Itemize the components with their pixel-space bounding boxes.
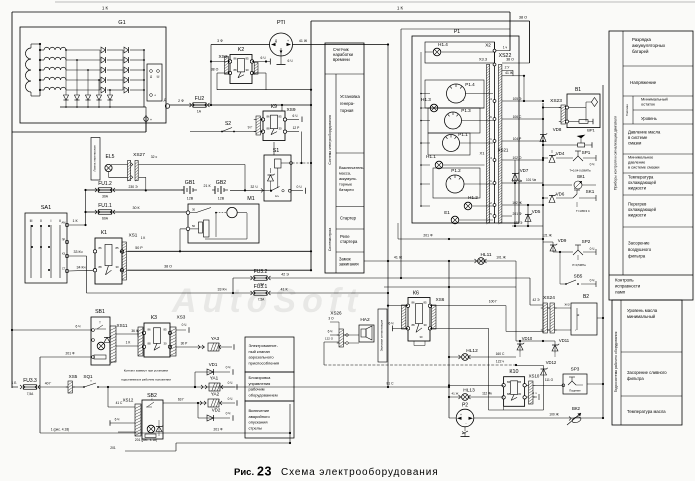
svg-text:аэрозольного: аэрозольного bbox=[249, 355, 275, 360]
svg-text:Н1.3: Н1.3 bbox=[421, 97, 431, 102]
svg-text:торная: торная bbox=[340, 108, 353, 113]
svg-text:FU3.3: FU3.3 bbox=[23, 378, 37, 384]
svg-text:121 Ж: 121 Ж bbox=[542, 234, 551, 238]
svg-text:+: + bbox=[460, 413, 462, 417]
svg-text:9 Г: 9 Г bbox=[248, 126, 253, 130]
svg-text:122 О: 122 О bbox=[325, 337, 334, 341]
svg-text:ВР1: ВР1 bbox=[587, 128, 595, 133]
svg-text:минимальный: минимальный bbox=[627, 314, 656, 319]
svg-text:воздушного: воздушного bbox=[628, 247, 652, 252]
svg-text:Н1.2: Н1.2 bbox=[468, 195, 478, 200]
svg-text:101 Чв: 101 Чв bbox=[526, 178, 536, 182]
svg-text:38 О: 38 О bbox=[211, 68, 219, 72]
svg-text:SB1: SB1 bbox=[95, 309, 105, 315]
svg-text:12 Р: 12 Р bbox=[293, 126, 301, 130]
svg-text:111 О: 111 О bbox=[545, 378, 554, 382]
svg-text:X1: X1 bbox=[480, 151, 486, 156]
svg-text:остаток: остаток bbox=[641, 102, 655, 107]
svg-text:ВК2: ВК2 bbox=[572, 406, 580, 411]
svg-text:0 Ч: 0 Ч bbox=[590, 163, 595, 167]
svg-text:6 Ч: 6 Ч bbox=[293, 114, 298, 118]
svg-text:Установка: Установка bbox=[340, 94, 360, 99]
svg-text:Ж/З: Ж/З bbox=[564, 303, 569, 307]
svg-text:VD5: VD5 bbox=[532, 209, 541, 214]
svg-text:XS12: XS12 bbox=[123, 398, 134, 403]
svg-text:40 Г: 40 Г bbox=[45, 382, 52, 386]
svg-text:Разрядка: Разрядка bbox=[632, 37, 652, 42]
svg-text:201 (рис. 4.18): 201 (рис. 4.18) bbox=[135, 438, 157, 442]
svg-text:YA1: YA1 bbox=[210, 376, 219, 381]
svg-text:0 ч: 0 ч bbox=[532, 391, 537, 395]
svg-text:32 Ч: 32 Ч bbox=[251, 185, 258, 189]
svg-text:88: 88 bbox=[411, 323, 415, 327]
svg-text:XS23: XS23 bbox=[550, 98, 562, 104]
svg-text:XS11: XS11 bbox=[117, 323, 128, 328]
svg-text:Звуковая сигнализация: Звуковая сигнализация bbox=[380, 319, 384, 351]
svg-text:охлаждающей: охлаждающей bbox=[628, 180, 657, 185]
svg-text:38 О: 38 О bbox=[519, 16, 527, 20]
svg-text:в системе: в системе bbox=[628, 135, 648, 140]
svg-text:7,5А: 7,5А bbox=[27, 392, 34, 396]
svg-text:201 Ф: 201 Ф bbox=[423, 234, 433, 238]
svg-text:XS21: XS21 bbox=[498, 148, 509, 153]
svg-text:VD8: VD8 bbox=[553, 127, 562, 132]
svg-text:50: 50 bbox=[192, 224, 196, 228]
svg-text:зажигания: зажигания bbox=[339, 262, 359, 267]
svg-text:приспособления: приспособления bbox=[249, 360, 280, 365]
svg-text:S: S bbox=[151, 398, 153, 402]
svg-text:201 Ф: 201 Ф bbox=[214, 428, 223, 432]
svg-text:0 Ч: 0 Ч bbox=[182, 323, 187, 327]
svg-text:батарей: батарей bbox=[632, 49, 649, 54]
svg-text:Р1.1: Р1.1 bbox=[458, 132, 468, 137]
svg-text:38 О: 38 О bbox=[506, 58, 514, 62]
svg-text:XS1: XS1 bbox=[129, 233, 138, 238]
svg-text:Т=0,04-0,08МПа: Т=0,04-0,08МПа bbox=[569, 169, 591, 173]
svg-text:жидкости: жидкости bbox=[628, 185, 647, 190]
svg-text:аварийного: аварийного bbox=[249, 414, 271, 419]
svg-text:АМ: АМ bbox=[62, 221, 66, 225]
svg-text:6 Ч: 6 Ч bbox=[115, 418, 120, 422]
svg-text:102 Ж: 102 Ж bbox=[512, 201, 521, 205]
svg-text:Стартер: Стартер bbox=[340, 216, 357, 221]
svg-text:Контроль: Контроль bbox=[615, 278, 634, 283]
svg-text:Д: Д bbox=[150, 75, 152, 79]
svg-text:Р1.3: Р1.3 bbox=[461, 108, 471, 113]
svg-text:85: 85 bbox=[423, 301, 427, 305]
svg-text:112 Фк: 112 Фк bbox=[482, 392, 492, 396]
svg-text:XS26: XS26 bbox=[330, 311, 342, 316]
svg-text:7,5А: 7,5А bbox=[258, 298, 265, 302]
svg-text:SA1: SA1 bbox=[41, 205, 52, 211]
svg-text:Система электрооборудования: Система электрооборудования bbox=[328, 115, 332, 164]
svg-text:HL13: HL13 bbox=[463, 388, 475, 394]
svg-text:HL12: HL12 bbox=[466, 348, 478, 354]
svg-text:VD10: VD10 bbox=[522, 336, 533, 341]
svg-text:ный клапан: ный клапан bbox=[249, 349, 270, 354]
svg-text:К10: К10 bbox=[509, 369, 518, 375]
svg-text:Включение: Включение bbox=[249, 408, 270, 413]
svg-text:Т=105±3 С: Т=105±3 С bbox=[576, 209, 590, 213]
svg-text:86: 86 bbox=[507, 380, 511, 384]
svg-text:86: 86 bbox=[266, 114, 270, 118]
svg-text:VD11: VD11 bbox=[559, 338, 570, 343]
svg-text:Система пуска: Система пуска bbox=[328, 228, 332, 251]
svg-text:K2: K2 bbox=[238, 47, 245, 53]
svg-text:23: 23 bbox=[257, 465, 272, 479]
svg-text:управления: управления bbox=[249, 381, 271, 386]
svg-text:41 К: 41 К bbox=[280, 288, 288, 292]
svg-text:К6: К6 bbox=[413, 291, 419, 297]
svg-text:XS6: XS6 bbox=[436, 297, 445, 302]
svg-text:100 Ж: 100 Ж bbox=[549, 413, 558, 417]
svg-text:X3.3: X3.3 bbox=[479, 57, 488, 62]
svg-text:ВК1: ВК1 bbox=[577, 174, 585, 179]
svg-text:аккумуля-: аккумуля- bbox=[339, 176, 357, 181]
svg-text:105 Э: 105 Э bbox=[513, 97, 522, 101]
svg-text:EL5: EL5 bbox=[106, 154, 115, 160]
svg-text:104 Р: 104 Р bbox=[513, 137, 522, 141]
svg-text:0 Ч: 0 Ч bbox=[226, 366, 231, 370]
svg-text:Электромагнит-: Электромагнит- bbox=[249, 343, 279, 348]
svg-text:102 О: 102 О bbox=[513, 156, 522, 160]
svg-text:В2: В2 bbox=[583, 294, 589, 300]
svg-text:GB1: GB1 bbox=[185, 180, 195, 186]
svg-text:12В: 12В bbox=[187, 197, 194, 201]
svg-text:30 К: 30 К bbox=[132, 206, 140, 210]
svg-text:101 Ж: 101 Ж bbox=[496, 256, 505, 260]
svg-text:FU3.2: FU3.2 bbox=[254, 269, 268, 275]
svg-text:фильтра: фильтра bbox=[627, 376, 644, 381]
svg-text:42 Э: 42 Э bbox=[281, 273, 289, 277]
svg-text:Приборы контроля и сигнализаци: Приборы контроля и сигнализации двигател… bbox=[614, 116, 618, 190]
svg-text:в системе смазки: в системе смазки bbox=[628, 165, 659, 170]
svg-text:106 С: 106 С bbox=[513, 115, 522, 119]
svg-text:+: + bbox=[287, 39, 289, 43]
svg-text:FU3.1: FU3.1 bbox=[254, 284, 268, 290]
svg-text:1 К: 1 К bbox=[141, 236, 146, 240]
svg-text:Н1.1: Н1.1 bbox=[426, 154, 436, 159]
svg-text:фильтра: фильтра bbox=[628, 254, 646, 259]
svg-text:1 Б: 1 Б bbox=[12, 381, 17, 385]
svg-text:6 Ч: 6 Ч bbox=[389, 322, 394, 326]
svg-text:30А: 30А bbox=[102, 195, 109, 199]
svg-text:Ш: Ш bbox=[157, 75, 160, 79]
svg-text:Температура масла: Температура масла bbox=[627, 409, 666, 414]
svg-text:стартера: стартера bbox=[340, 239, 358, 244]
svg-text:30: 30 bbox=[245, 68, 249, 72]
svg-text:0 Ч: 0 Ч bbox=[228, 381, 233, 385]
svg-text:30 Р: 30 Р bbox=[181, 342, 189, 346]
svg-text:VD6: VD6 bbox=[556, 192, 565, 197]
svg-text:ламп: ламп bbox=[615, 289, 626, 294]
svg-text:SP1: SP1 bbox=[582, 150, 591, 155]
svg-text:41 Ж: 41 Ж bbox=[505, 71, 514, 75]
svg-text:HL11: HL11 bbox=[480, 252, 491, 258]
svg-text:33 Кч: 33 Кч bbox=[74, 250, 83, 254]
svg-text:21 К: 21 К bbox=[203, 184, 211, 188]
svg-text:жидкости: жидкости bbox=[628, 213, 647, 218]
svg-text:VD7: VD7 bbox=[520, 168, 529, 173]
svg-text:34 Кч: 34 Кч bbox=[77, 266, 86, 270]
svg-text:YA2: YA2 bbox=[211, 392, 220, 397]
svg-text:201 Ф: 201 Ф bbox=[513, 212, 522, 216]
svg-text:86: 86 bbox=[411, 301, 415, 305]
svg-text:12В: 12В bbox=[218, 197, 225, 201]
svg-text:30: 30 bbox=[423, 323, 427, 327]
svg-text:201 Ф: 201 Ф bbox=[66, 352, 75, 356]
svg-text:6 Ч: 6 Ч bbox=[328, 330, 333, 334]
svg-text:1 ч: 1 ч bbox=[503, 46, 508, 50]
svg-text:85: 85 bbox=[115, 246, 119, 250]
svg-text:X2: X2 bbox=[485, 43, 491, 48]
svg-text:SK1: SK1 bbox=[586, 189, 595, 194]
svg-text:VD9: VD9 bbox=[558, 238, 567, 243]
svg-text:GB2: GB2 bbox=[216, 180, 226, 186]
svg-text:6 Ч: 6 Ч bbox=[287, 59, 292, 63]
svg-text:XS10: XS10 bbox=[529, 374, 540, 379]
svg-text:230 Э: 230 Э bbox=[128, 185, 138, 189]
svg-text:XS27: XS27 bbox=[133, 152, 145, 158]
svg-text:86: 86 bbox=[233, 56, 237, 60]
svg-text:122 Э: 122 Э bbox=[514, 221, 523, 225]
svg-text:В1: В1 bbox=[575, 87, 581, 93]
svg-text:Контакт замкнут при установке: Контакт замкнут при установке bbox=[124, 369, 169, 373]
svg-text:S2: S2 bbox=[225, 121, 231, 127]
svg-text:XS9: XS9 bbox=[286, 107, 295, 113]
svg-text:0: 0 bbox=[40, 219, 42, 223]
svg-text:122 ч: 122 ч bbox=[496, 360, 504, 364]
svg-text:КЗ: КЗ bbox=[62, 252, 65, 256]
svg-text:42 Э: 42 Э bbox=[533, 298, 541, 302]
svg-text:85: 85 bbox=[278, 114, 282, 118]
svg-text:масса,: масса, bbox=[339, 171, 351, 176]
svg-text:6 Ч: 6 Ч bbox=[260, 56, 265, 60]
svg-text:85: 85 bbox=[518, 380, 522, 384]
svg-text:50 Р: 50 Р bbox=[135, 246, 143, 250]
svg-text:41 Ж: 41 Ж bbox=[452, 392, 459, 396]
svg-text:SP2: SP2 bbox=[582, 239, 591, 244]
svg-text:88: 88 bbox=[147, 342, 151, 346]
svg-text:41 Ж: 41 Ж bbox=[299, 39, 308, 43]
svg-text:Падение: Падение bbox=[569, 389, 581, 393]
svg-text:86: 86 bbox=[98, 246, 102, 250]
svg-text:Р=0,5МПа: Р=0,5МПа bbox=[572, 263, 586, 267]
svg-text:XS5: XS5 bbox=[69, 374, 78, 379]
svg-text:Топливо: Топливо bbox=[625, 104, 629, 116]
svg-text:100 Г: 100 Г bbox=[489, 300, 498, 304]
svg-text:Уровень масла: Уровень масла bbox=[627, 308, 658, 313]
svg-text:81 С: 81 С bbox=[387, 382, 395, 386]
svg-text:Засорение сливного: Засорение сливного bbox=[627, 370, 667, 375]
svg-text:36 Ж: 36 Ж bbox=[131, 329, 138, 333]
svg-text:XS3: XS3 bbox=[177, 315, 186, 320]
svg-text:63 Г: 63 Г bbox=[178, 398, 185, 402]
svg-text:101 Чв: 101 Чв bbox=[512, 179, 523, 183]
svg-text:30: 30 bbox=[163, 342, 167, 346]
svg-text:+: + bbox=[154, 94, 156, 98]
svg-text:SB5: SB5 bbox=[574, 274, 583, 279]
svg-text:FU1.1: FU1.1 bbox=[98, 203, 112, 209]
svg-text:К9: К9 bbox=[271, 104, 277, 110]
svg-text:К1: К1 bbox=[101, 230, 107, 236]
svg-text:12+: 12+ bbox=[275, 195, 280, 198]
svg-text:Перегрев: Перегрев bbox=[628, 201, 647, 206]
svg-text:86: 86 bbox=[147, 328, 151, 332]
svg-text:Давление масла: Давление масла bbox=[628, 130, 661, 135]
svg-text:Р1: Р1 bbox=[454, 29, 460, 35]
svg-text:ПР: ПР bbox=[62, 238, 66, 242]
svg-text:3 О: 3 О bbox=[328, 317, 334, 321]
svg-text:0 Ч: 0 Ч bbox=[296, 185, 301, 189]
svg-text:85: 85 bbox=[245, 56, 249, 60]
svg-text:0 Ч: 0 Ч bbox=[590, 279, 595, 283]
svg-text:Р2: Р2 bbox=[462, 403, 468, 409]
svg-text:30: 30 bbox=[278, 126, 282, 130]
svg-text:1 К: 1 К bbox=[102, 6, 108, 11]
svg-text:Т: Т bbox=[99, 321, 101, 325]
svg-text:160 С: 160 С bbox=[496, 352, 505, 356]
svg-text:88: 88 bbox=[507, 392, 511, 396]
svg-text:0 Ч: 0 Ч bbox=[228, 397, 233, 401]
svg-text:генера-: генера- bbox=[340, 101, 355, 106]
svg-text:1 К: 1 К bbox=[397, 6, 403, 11]
svg-text:30: 30 bbox=[518, 392, 522, 396]
svg-text:FU1.2: FU1.2 bbox=[98, 181, 112, 187]
svg-text:Гидросистема рабочего оборудов: Гидросистема рабочего оборудования bbox=[614, 332, 618, 393]
svg-text:2 Ф: 2 Ф bbox=[178, 99, 184, 103]
svg-text:РТl: РТl bbox=[277, 20, 285, 26]
svg-text:41 Ж: 41 Ж bbox=[394, 256, 403, 260]
svg-text:VD2: VD2 bbox=[212, 408, 221, 413]
svg-text:стрелы: стрелы bbox=[249, 425, 262, 430]
svg-text:85: 85 bbox=[163, 328, 167, 332]
svg-text:Р1.2: Р1.2 bbox=[451, 168, 461, 173]
svg-text:VD4: VD4 bbox=[556, 151, 565, 156]
svg-text:88: 88 bbox=[233, 68, 237, 72]
svg-text:30: 30 bbox=[192, 208, 196, 212]
svg-text:0 Ч: 0 Ч bbox=[226, 412, 231, 416]
svg-text:S1: S1 bbox=[273, 148, 280, 154]
svg-text:201: 201 bbox=[110, 446, 116, 450]
svg-text:SQ1: SQ1 bbox=[83, 374, 93, 379]
svg-text:3 Ф: 3 Ф bbox=[217, 39, 223, 43]
svg-text:88: 88 bbox=[98, 265, 102, 269]
svg-text:33 Кч: 33 Кч bbox=[218, 288, 227, 292]
svg-text:G1: G1 bbox=[118, 20, 125, 26]
svg-text:г: г bbox=[575, 328, 576, 332]
svg-text:Выключатель: Выключатель bbox=[339, 165, 363, 170]
svg-text:Схема электрооборудования: Схема электрооборудования bbox=[281, 466, 439, 478]
svg-text:М1: М1 bbox=[247, 196, 255, 202]
svg-text:исправности: исправности bbox=[615, 284, 641, 289]
svg-text:батареи: батареи bbox=[339, 187, 354, 192]
svg-text:К3: К3 bbox=[151, 315, 157, 321]
svg-text:I: I bbox=[51, 219, 52, 223]
svg-text:Блокировка: Блокировка bbox=[249, 375, 272, 380]
svg-text:НА2: НА2 bbox=[360, 317, 370, 323]
svg-text:Засорение: Засорение bbox=[628, 240, 650, 245]
svg-text:38 О: 38 О bbox=[164, 265, 172, 269]
svg-text:смазки: смазки bbox=[628, 140, 642, 145]
svg-text:Лампа переносная: Лампа переносная bbox=[93, 145, 97, 172]
svg-text:XS2: XS2 bbox=[218, 54, 227, 60]
svg-text:оборудованием: оборудованием bbox=[249, 392, 278, 397]
svg-text:32 с: 32 с bbox=[151, 155, 158, 159]
svg-text:торные: торные bbox=[339, 181, 352, 186]
svg-text:FU2: FU2 bbox=[195, 96, 205, 102]
svg-text:Уровень: Уровень bbox=[641, 116, 657, 121]
svg-text:Температура: Температура bbox=[628, 175, 654, 180]
svg-text:YA3: YA3 bbox=[211, 336, 220, 341]
svg-text:охлаждающей: охлаждающей bbox=[628, 207, 657, 212]
svg-text:Р1.4: Р1.4 bbox=[465, 82, 475, 87]
svg-text:1 К: 1 К bbox=[126, 341, 131, 345]
svg-text:аккумуляторных: аккумуляторных bbox=[632, 43, 666, 48]
svg-text:88: 88 bbox=[266, 126, 270, 130]
svg-text:СТ: СТ bbox=[62, 267, 66, 271]
svg-text:времени: времени bbox=[333, 57, 350, 62]
svg-text:Напряжение: Напряжение bbox=[630, 80, 657, 85]
svg-text:XS24: XS24 bbox=[543, 295, 555, 301]
svg-text:1 (рис. 4.18): 1 (рис. 4.18) bbox=[51, 428, 70, 432]
svg-text:Рис.: Рис. bbox=[234, 467, 254, 478]
svg-text:60А: 60А bbox=[102, 217, 109, 221]
svg-text:SP3: SP3 bbox=[571, 367, 580, 372]
svg-text:Е1: Е1 bbox=[444, 210, 450, 215]
svg-text:Н1.4: Н1.4 bbox=[438, 42, 448, 47]
svg-text:0 Ч: 0 Ч bbox=[590, 247, 595, 251]
svg-text:рабочим: рабочим bbox=[249, 387, 265, 392]
svg-text:подъемника в рабочем положении: подъемника в рабочем положении bbox=[121, 378, 171, 382]
svg-text:30: 30 bbox=[115, 265, 119, 269]
svg-text:VD1: VD1 bbox=[209, 362, 218, 367]
svg-text:1А: 1А bbox=[197, 110, 202, 114]
svg-text:6 Ч: 6 Ч bbox=[76, 325, 81, 329]
svg-text:опускания: опускания bbox=[249, 420, 268, 425]
svg-text:VD12: VD12 bbox=[546, 360, 557, 365]
svg-text:III: III bbox=[30, 219, 33, 223]
